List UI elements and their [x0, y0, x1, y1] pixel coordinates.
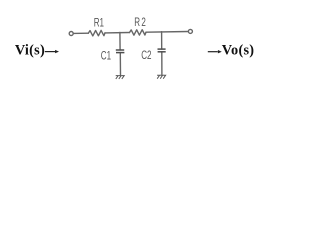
svg-text:R1: R1: [94, 17, 105, 30]
svg-text:C1: C1: [101, 50, 112, 63]
svg-text:C2: C2: [141, 50, 152, 63]
svg-text:R: R: [134, 16, 140, 29]
svg-text:Vi(s): Vi(s): [15, 43, 45, 59]
svg-text:2: 2: [141, 16, 146, 29]
svg-text:Vo(s): Vo(s): [222, 43, 255, 59]
